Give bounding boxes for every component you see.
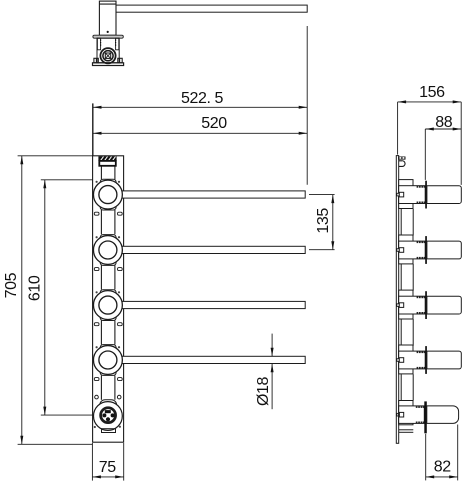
svg-text:82: 82: [434, 459, 451, 476]
svg-text:135: 135: [315, 208, 332, 234]
svg-text:610: 610: [27, 275, 44, 301]
svg-text:75: 75: [99, 459, 116, 476]
svg-text:520: 520: [201, 115, 227, 132]
svg-text:Ø18: Ø18: [255, 376, 272, 406]
svg-text:88: 88: [435, 114, 452, 131]
svg-text:705: 705: [3, 272, 20, 298]
svg-text:156: 156: [419, 84, 445, 101]
svg-text:522. 5: 522. 5: [181, 90, 224, 107]
